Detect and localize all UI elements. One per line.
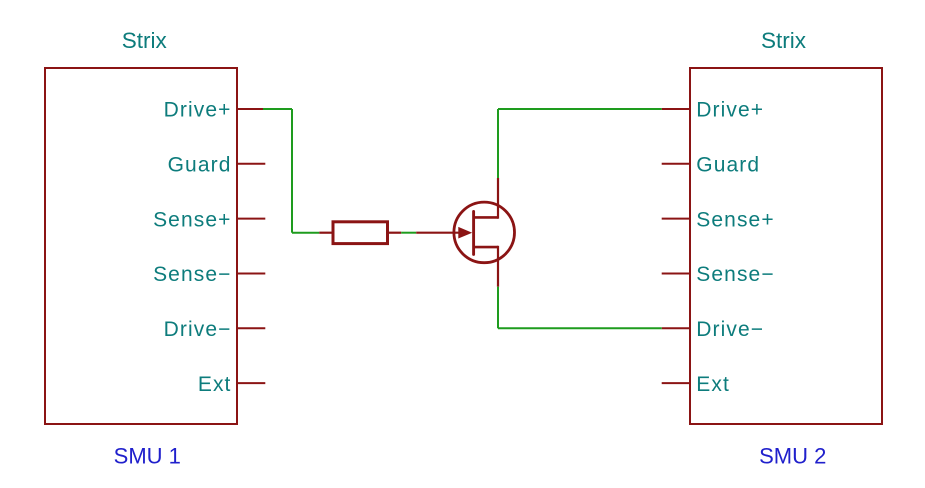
SMU 1 pin Drive- bbox=[237, 327, 265, 329]
svg-text:Sense+: Sense+ bbox=[153, 208, 231, 231]
svg-text:Guard: Guard bbox=[168, 154, 232, 177]
resistor body bbox=[333, 222, 388, 244]
transistor Q1 drain stub bbox=[474, 216, 498, 219]
wire to resistor left bbox=[292, 232, 319, 234]
SMU 2 pin Drive+ bbox=[662, 108, 690, 110]
svg-text:Strix: Strix bbox=[761, 28, 807, 53]
SMU 1 pin Guard bbox=[237, 163, 265, 165]
transistor Q1 body circle bbox=[454, 202, 515, 263]
wire SMU1 Drive+ horizontal bbox=[263, 108, 292, 110]
svg-text:SMU 2: SMU 2 bbox=[759, 444, 826, 469]
svg-text:Drive+: Drive+ bbox=[696, 99, 764, 122]
wire left vertical drop bbox=[291, 109, 293, 233]
transistor Q1 source stub bbox=[474, 246, 498, 249]
wire source down bbox=[497, 287, 499, 329]
svg-text:Ext: Ext bbox=[198, 373, 232, 396]
SMU 1 pin Ext bbox=[237, 382, 265, 384]
SMU 2 pin Ext bbox=[662, 382, 690, 384]
SMU 2 pin Sense+ bbox=[662, 218, 690, 220]
transistor Q1 gate arrow bbox=[459, 228, 471, 238]
wire top to SMU2 Drive+ bbox=[498, 108, 662, 110]
SMU 1 box outline bbox=[45, 68, 237, 424]
svg-text:Strix: Strix bbox=[122, 28, 168, 53]
transistor Q1 channel bar bbox=[472, 211, 475, 254]
svg-text:Sense+: Sense+ bbox=[696, 208, 774, 231]
svg-text:Drive−: Drive− bbox=[696, 318, 764, 341]
wire resistor to gate bbox=[401, 232, 416, 234]
SMU 2 pin Guard bbox=[662, 163, 690, 165]
SMU 1 pin Sense- bbox=[237, 273, 265, 275]
svg-text:Sense−: Sense− bbox=[696, 263, 774, 286]
wire bottom to SMU2 Drive- bbox=[498, 327, 662, 329]
SMU 2 pin Sense- bbox=[662, 273, 690, 275]
wire drain up bbox=[497, 109, 499, 178]
svg-text:Guard: Guard bbox=[696, 154, 760, 177]
SMU 2 box outline bbox=[690, 68, 882, 424]
resistor right lead bbox=[388, 232, 402, 234]
resistor left lead bbox=[319, 232, 333, 234]
SMU 2 pin Drive- bbox=[662, 327, 690, 329]
transistor Q1 drain pin bbox=[497, 178, 499, 219]
svg-text:Sense−: Sense− bbox=[153, 263, 231, 286]
svg-text:Drive−: Drive− bbox=[164, 318, 232, 341]
transistor Q1 gate lead bbox=[416, 232, 468, 234]
svg-text:SMU 1: SMU 1 bbox=[114, 444, 181, 469]
SMU 1 pin Sense+ bbox=[237, 218, 265, 220]
SMU 1 pin Drive+ bbox=[237, 108, 265, 110]
svg-text:Ext: Ext bbox=[696, 373, 730, 396]
svg-text:Drive+: Drive+ bbox=[164, 99, 232, 122]
transistor Q1 source pin bbox=[497, 246, 499, 287]
